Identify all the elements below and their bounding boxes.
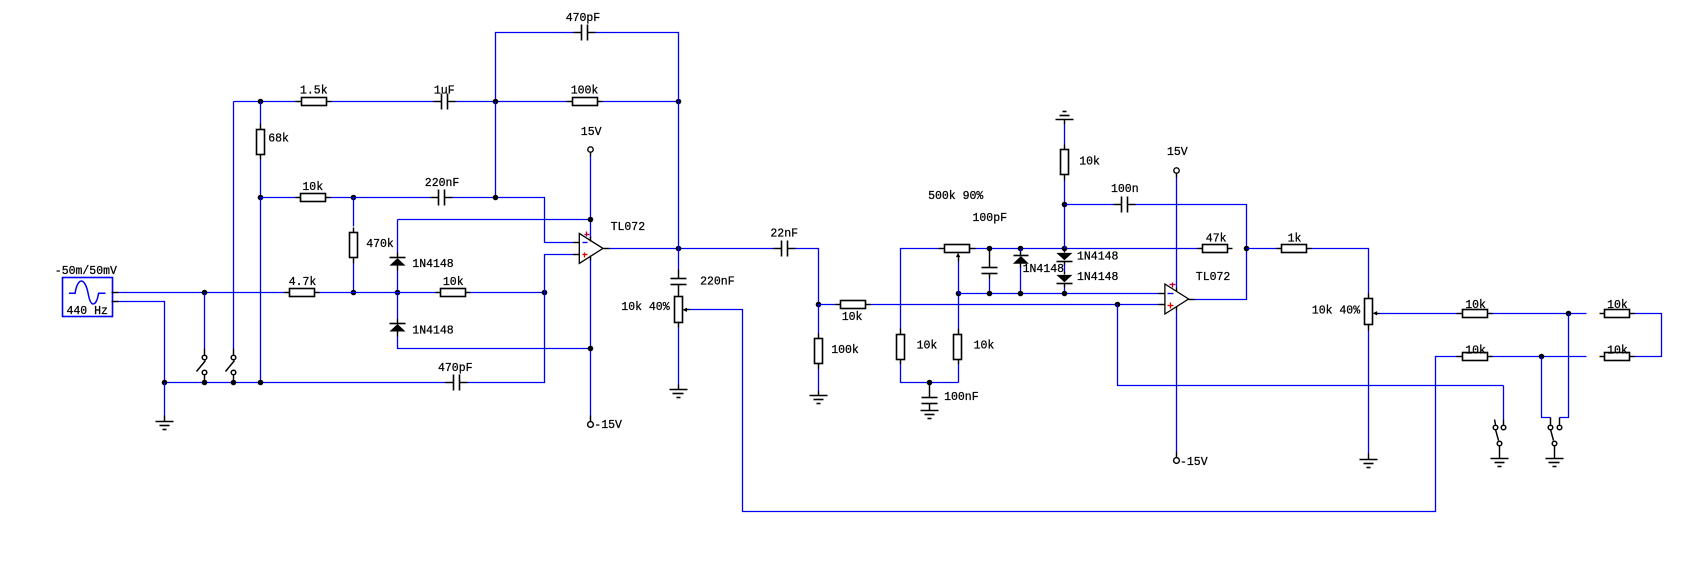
resistor R8 10k — [836, 301, 871, 325]
node junction 1uF/100k/470pF — [493, 99, 499, 105]
wire: P3 wiper to 10k row — [1380, 313, 1457, 315]
resistor R13 47k — [1198, 232, 1233, 252]
wire: switch S3 drop — [1503, 386, 1505, 420]
diode D3 1N4148 — [1013, 249, 1064, 277]
wire: node down to 220nF row — [495, 102, 497, 198]
wire: R17 to R18 — [1493, 356, 1587, 358]
wire: up through R11 — [958, 365, 960, 383]
switch S3 — [1493, 420, 1506, 454]
wire: U2 output to 47k node — [1195, 249, 1247, 300]
node junction second stage input — [816, 302, 822, 308]
resistor R9 100k — [815, 305, 859, 391]
wire: op-amp U1 bottom supply to -15V — [590, 260, 592, 416]
node junction diode mid — [395, 290, 401, 296]
svg-text:1N4148: 1N4148 — [1077, 271, 1119, 284]
node junction -15V rail — [588, 346, 594, 352]
node junction non-inverting branch to switch — [1115, 302, 1121, 308]
node junction 100pF top — [987, 246, 993, 252]
ground G3 — [810, 391, 828, 404]
resistor R2 100k — [567, 85, 603, 106]
wire: P1 bottom to ground — [678, 322, 680, 385]
op-amp U1 TL072 — [574, 221, 646, 264]
node junction D3 top — [1018, 246, 1024, 252]
svg-text:220nF: 220nF — [425, 177, 460, 190]
ground G1 — [156, 416, 174, 430]
svg-text:10k: 10k — [974, 340, 995, 353]
wire: rail to ground — [164, 383, 166, 416]
wire: +15V down to op-amp U1 — [590, 157, 592, 238]
wire: D5 to inverting rail — [1064, 288, 1066, 294]
svg-text:68k: 68k — [268, 133, 289, 146]
wire: R11 top to inverting rail — [958, 294, 960, 329]
svg-text:10k 40%: 10k 40% — [1312, 305, 1360, 318]
svg-text:100n: 100n — [1111, 183, 1139, 196]
node junction 470k bottom — [351, 290, 357, 296]
wire: U2 bottom supply to -15V — [1176, 311, 1178, 452]
wire: diode branch vertical upper — [397, 220, 399, 253]
wire: R16 around to R18 — [1635, 314, 1662, 357]
resistor R10 10k — [897, 329, 938, 365]
svg-text:TL072: TL072 — [611, 221, 646, 234]
node junction row1 to switch S4 — [1566, 311, 1572, 317]
svg-text:10k: 10k — [1465, 344, 1486, 357]
svg-text:500k 90%: 500k 90% — [928, 190, 983, 203]
wire: 10k to 470k node — [331, 197, 354, 199]
wire: diode branch top to +15V column — [398, 219, 591, 221]
svg-text:10k: 10k — [842, 311, 863, 324]
svg-text:470pF: 470pF — [566, 12, 601, 25]
node junction 100k/470pF feedback — [676, 99, 682, 105]
capacitor C7 100nF — [922, 383, 979, 411]
wire: D2 down to -15V rail — [398, 337, 591, 349]
wire: 68k node down to ground rail — [260, 198, 262, 383]
wire: 68k top lead — [260, 102, 262, 124]
svg-text:10k: 10k — [302, 181, 323, 194]
capacitor C3 220nF — [425, 177, 460, 206]
svg-text:100k: 100k — [831, 344, 859, 357]
resistor R1 1.5k — [296, 85, 332, 106]
node junction S2 to rail — [231, 380, 237, 386]
svg-text:15V: 15V — [581, 126, 602, 139]
svg-text:440 Hz: 440 Hz — [67, 305, 108, 318]
wire: source lower pin to ground rail — [119, 302, 165, 383]
node junction rail left — [162, 380, 168, 386]
capacitor C4 470pF — [438, 362, 473, 390]
terminal 15V supply op-amp U2 — [1167, 146, 1188, 177]
svg-text:10k: 10k — [917, 340, 938, 353]
resistor R16 10k — [1600, 299, 1635, 318]
svg-text:4.7k: 4.7k — [289, 276, 317, 289]
diode D4 1N4148 — [1056, 250, 1118, 266]
wire: input top node down to switch S2 — [233, 102, 235, 349]
terminal -15V supply op-amp U1 — [588, 416, 622, 433]
svg-text:220nF: 220nF — [700, 276, 735, 289]
terminal 15V supply op-amp U1 — [581, 126, 602, 157]
resistor R18 10k — [1600, 344, 1635, 360]
node junction non-inverting branch — [542, 290, 548, 296]
wire: D3 to inverting rail — [1020, 268, 1022, 294]
wire: R10 bottom to 100nF node — [901, 365, 959, 383]
wire: 1.5k to 1uF — [332, 101, 434, 103]
svg-text:-15V: -15V — [1180, 456, 1208, 469]
wire: 68k bottom to 10k row node — [260, 160, 262, 198]
resistor R17 10k — [1457, 344, 1493, 360]
switch S1 — [197, 349, 207, 382]
svg-text:470pF: 470pF — [438, 362, 473, 375]
wire: ground rail — [165, 382, 446, 384]
svg-text:10k: 10k — [1607, 344, 1628, 357]
switch S2 — [226, 349, 236, 382]
wire: 10k to non-inverting node — [471, 292, 545, 294]
wire: 10k row left — [261, 197, 296, 199]
svg-text:10k: 10k — [1079, 156, 1100, 169]
wire: inverting rail — [959, 293, 1159, 295]
svg-text:10k: 10k — [1607, 299, 1628, 312]
node junction D4 top — [1062, 246, 1068, 252]
wire: output node down to 220nF — [678, 249, 680, 270]
svg-text:-50m/50mV: -50m/50mV — [55, 265, 117, 278]
svg-text:1uF: 1uF — [434, 85, 455, 98]
wire: down and right to switch S3 — [1118, 305, 1504, 386]
node junction D3 bottom — [1018, 291, 1024, 297]
node junction row2 to switch S4 — [1539, 354, 1545, 360]
ground G5 inverted — [1056, 112, 1074, 125]
capacitor C1 1uF — [434, 85, 456, 110]
node junction 100nF tap — [927, 380, 933, 386]
signal source V1 -50m/50mV 440 Hz — [55, 265, 119, 318]
ground G8 — [1546, 454, 1564, 467]
wire: row2 node to switch S4 left — [1542, 357, 1551, 418]
svg-text:100k: 100k — [571, 85, 599, 98]
resistor R4 10k — [296, 181, 331, 202]
resistor R5 470k — [350, 198, 394, 293]
op-amp U2 TL072 — [1159, 271, 1231, 314]
wire: 4.7k to 10k — [320, 292, 436, 294]
node junction 47k/1k/output — [1244, 246, 1250, 252]
wire: 100n to feedback corner — [1136, 205, 1247, 249]
node junction 68k/10k — [258, 195, 264, 201]
wire: input node to 1.5k row — [234, 101, 296, 103]
wire: P3 bottom to ground — [1368, 331, 1370, 454]
resistor R6 4.7k — [285, 276, 320, 296]
wire: R15 to R16 — [1493, 313, 1587, 315]
wire: 22nF to second stage input node — [796, 249, 819, 305]
wire: to 100n cap — [1065, 204, 1114, 206]
capacitor C6 22nF — [770, 228, 798, 257]
svg-text:1.5k: 1.5k — [300, 85, 328, 98]
svg-text:470k: 470k — [366, 238, 394, 251]
potentiometer P2 500k 90% — [928, 190, 1007, 262]
wire: feedback column — [678, 102, 680, 249]
svg-text:1k: 1k — [1288, 232, 1302, 245]
svg-text:1N4148: 1N4148 — [412, 325, 454, 338]
potentiometer P3 10k 40% — [1312, 294, 1380, 331]
wire: 100k to output feedback column — [603, 101, 679, 103]
wire: 470k node to 220nF — [354, 197, 431, 199]
switch S4 — [1548, 418, 1562, 454]
wire: ground to 10k — [1064, 125, 1066, 145]
wire: D1 to mid node — [397, 271, 399, 293]
wire: between D4 and D5 — [1064, 265, 1066, 272]
svg-text:TL072: TL072 — [1196, 271, 1231, 284]
wire: switch S1 drop — [204, 293, 206, 349]
resistor R14 1k — [1277, 232, 1312, 252]
wire: 220nF to inverting input corner — [453, 198, 574, 243]
wire: 1uF to 100k with node — [456, 101, 567, 103]
node junction 10k/470k — [351, 195, 357, 201]
wire: down to 470pF ground-side cap — [468, 293, 545, 383]
svg-text:1N4148: 1N4148 — [412, 258, 454, 271]
wire: +15V down to op-amp U2 — [1176, 178, 1178, 288]
node junction D5 bottom — [1062, 291, 1068, 297]
svg-text:10k: 10k — [1465, 299, 1486, 312]
node junction wiper/inverting rail — [956, 291, 962, 297]
resistor R15 10k — [1457, 299, 1493, 318]
svg-text:47k: 47k — [1206, 232, 1227, 245]
capacitor C5 220nF — [671, 270, 735, 297]
capacitor C9 100n — [1111, 183, 1139, 213]
terminal -15V supply op-amp U2 — [1174, 452, 1208, 469]
ground G6 — [1360, 454, 1378, 468]
node junction switch S1 tap — [202, 290, 208, 296]
ground G2 — [670, 385, 688, 398]
wire: node to 1k — [1247, 248, 1277, 250]
wire: U1 output to 22nF — [610, 248, 774, 250]
resistor R12 10k — [1061, 145, 1101, 181]
node junction 68k branch to rail — [258, 380, 264, 386]
node junction output/feedback — [676, 246, 682, 252]
wire: 470pF feedback top loop — [496, 33, 574, 102]
ground G4 — [921, 411, 939, 419]
wire: mid node to D2 — [397, 293, 399, 319]
wire: R12 to 100n node — [1064, 181, 1066, 249]
capacitor C2 470pF — [566, 12, 601, 41]
wire: input node to 10k — [819, 304, 836, 306]
resistor R7 10k — [436, 276, 471, 297]
diode D5 1N4148 — [1056, 271, 1118, 287]
svg-text:1N4148: 1N4148 — [1023, 263, 1065, 276]
wire: P1 wiper to bottom loop — [690, 310, 1457, 512]
wire: P2 right lead along top rail — [976, 248, 1198, 250]
svg-text:15V: 15V — [1167, 146, 1188, 159]
diode D2 1N4148 — [390, 319, 454, 338]
svg-text:100nF: 100nF — [944, 391, 979, 404]
node junction S1 to rail — [202, 380, 208, 386]
wire: row1 node to switch S4 right — [1560, 314, 1569, 418]
wire: P2 wiper down — [958, 262, 960, 294]
node junction on 220nF wire — [493, 195, 499, 201]
wire: 100pF bottom to rail — [989, 279, 991, 294]
wire: 470pF to feedback column — [596, 33, 679, 102]
svg-text:22nF: 22nF — [770, 228, 798, 241]
wire: source upper pin to 4.7k — [119, 292, 285, 294]
resistor R3 68k — [257, 124, 290, 160]
node junction diode top to supply — [588, 217, 594, 223]
capacitor C8 100pF — [982, 249, 998, 279]
svg-text:100pF: 100pF — [973, 212, 1008, 225]
node junction 100pF bottom — [987, 291, 993, 297]
node junction 100n branch — [1062, 202, 1068, 208]
wire: 500k pot left lead down — [901, 249, 939, 329]
node junction at 1.5k left / 68k top — [258, 99, 264, 105]
svg-text:10k 40%: 10k 40% — [621, 301, 669, 314]
potentiometer P1 10k 40% — [621, 297, 689, 323]
wire: 1k to P3 top — [1312, 249, 1369, 294]
diode D1 1N4148 — [390, 253, 454, 271]
wire: 10k to U2 non-inverting input — [871, 304, 1159, 306]
svg-text:1N4148: 1N4148 — [1077, 250, 1119, 263]
resistor R11 10k — [954, 329, 995, 365]
svg-text:-15V: -15V — [594, 419, 622, 432]
ground G7 — [1491, 454, 1509, 467]
wire: up to non-inverting input — [545, 255, 574, 293]
svg-text:10k: 10k — [443, 276, 464, 289]
